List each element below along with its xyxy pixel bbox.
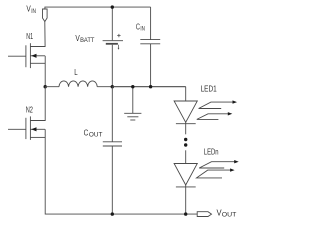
svg-text:BATT: BATT [80,38,95,44]
wire top rail VIN to CIN [45,7,151,9]
node switch junction [44,85,47,88]
node CIN mid rail junction [149,85,152,88]
svg-text:C: C [136,22,140,32]
svg-text:LED1: LED1 [201,83,217,93]
wire LEDn cathode to bottom rail [185,185,187,214]
wire to LEDn anode [185,150,187,163]
wire ground branch [132,87,134,114]
wire N2 source to bottom rail and rail to VOUT [45,129,197,214]
node VBATT top rail junction [111,5,114,8]
light arrows LEDn [197,160,239,178]
node ellipsis dots [184,138,187,141]
svg-text:N2: N2 [26,104,33,114]
svg-text:IN: IN [31,9,36,15]
battery VBATT [103,34,123,50]
ground [124,113,141,120]
node COUT bottom rail junction [111,212,114,215]
svg-text:OUT: OUT [222,211,237,218]
wire LED1 cathode [185,122,187,134]
light arrows LED1 [197,100,237,119]
node ground mid rail junction [131,85,134,88]
transistor N2 [8,116,45,139]
svg-text:IN: IN [140,26,145,32]
wire VIN terminal to N1 drain [30,22,45,47]
svg-text:OUT: OUT [89,132,103,138]
svg-text:C: C [84,127,89,137]
terminal VOUT [197,212,211,217]
LED LED1 [174,101,197,124]
wire mid rail to LED1 anode [185,87,187,101]
node LED string bottom rail junction [184,212,187,215]
LED LEDn [174,164,197,187]
wire mid rail [112,86,185,88]
transistor N1 [8,43,45,68]
inductor L [45,81,186,87]
svg-text:N1: N1 [26,31,33,41]
wire VBATT top [111,7,113,40]
terminal VIN [43,9,48,22]
wire switch node to N2 drain [30,87,45,121]
svg-text:L: L [74,67,78,77]
capacitor CIN [140,7,160,87]
wire N1 source to switch node [44,56,46,87]
capacitor COUT [103,87,122,214]
node VBATT mid rail junction [111,85,114,88]
svg-text:LEDn: LEDn [204,146,219,156]
wire VBATT bottom to mid rail [111,45,113,87]
